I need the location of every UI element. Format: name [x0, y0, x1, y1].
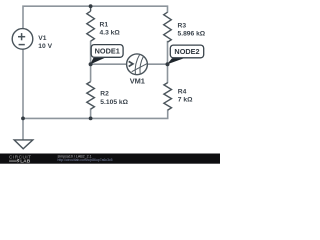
label V1 10 V: [38, 35, 52, 50]
svg-text:7 kΩ: 7 kΩ: [178, 97, 193, 104]
resistor R3: [164, 12, 172, 42]
wire node A to voltmeter: [91, 63, 127, 65]
wire top rail: [23, 6, 168, 29]
banner logo CIRCUIT LAB: [9, 154, 32, 164]
node NODE2 flag: [167, 45, 204, 64]
svg-text:NODE2: NODE2: [174, 47, 199, 56]
wire R2 to bottom rail: [90, 109, 92, 119]
label R3 5.896 kΩ: [178, 22, 206, 37]
svg-text:LAB: LAB: [20, 159, 31, 165]
label R1 4.3 kΩ: [100, 21, 121, 36]
wire R3 to R4: [167, 41, 169, 83]
resistor R1: [87, 6, 95, 41]
node NODE1 flag: [90, 45, 123, 65]
ground: [14, 140, 33, 149]
voltmeter VM1: [127, 54, 148, 75]
wire bottom rail: [23, 49, 168, 119]
wire R1 to node A: [90, 41, 92, 64]
wire ground stub: [22, 118, 24, 139]
svg-text:V1: V1: [38, 35, 46, 42]
svg-text:http://circuitlab.com/c/p86up7: http://circuitlab.com/c/p86up7a6c3c5: [58, 158, 113, 162]
junction dot node A: [89, 62, 93, 66]
junction dot top R1: [89, 4, 93, 8]
voltage source V1: [12, 29, 33, 50]
svg-text:VM1: VM1: [130, 77, 145, 86]
svg-text:5.105 kΩ: 5.105 kΩ: [100, 99, 128, 106]
resistor R2: [87, 82, 95, 110]
junction dot node B: [166, 62, 170, 66]
svg-text:10 V: 10 V: [38, 43, 52, 50]
svg-text:R4: R4: [178, 89, 187, 96]
resistor R4: [164, 83, 172, 111]
junction dot R2 bottom: [89, 117, 93, 121]
wire voltmeter to node B: [147, 63, 168, 65]
label R2 5.105 kΩ: [100, 91, 128, 106]
svg-text:NODE1: NODE1: [95, 47, 120, 56]
wire node A to R2: [90, 64, 92, 81]
svg-text:R2: R2: [100, 91, 109, 98]
svg-text:R1: R1: [100, 21, 109, 28]
svg-text:4.3 kΩ: 4.3 kΩ: [100, 30, 121, 37]
label R4 7 kΩ: [178, 89, 193, 104]
banner: [0, 154, 220, 164]
svg-text:5.896 kΩ: 5.896 kΩ: [178, 31, 206, 38]
junction dot ground: [21, 117, 25, 121]
svg-text:R3: R3: [178, 22, 187, 29]
